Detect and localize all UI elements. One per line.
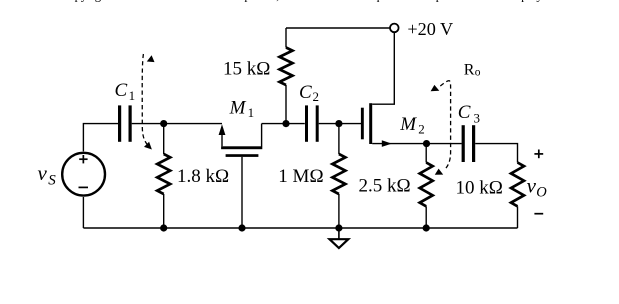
+20 V supply terminal (open circle) <box>390 24 399 33</box>
transistor M2 source wire with arrow <box>372 143 426 145</box>
svg-text:1.8 kΩ: 1.8 kΩ <box>177 166 229 187</box>
svg-text:O: O <box>536 185 547 201</box>
capacitor C3 <box>462 125 465 162</box>
svg-text:2: 2 <box>313 89 320 104</box>
wire C3 to load <box>475 144 517 163</box>
svg-text:S: S <box>48 172 56 188</box>
svg-text:o: o <box>475 67 481 79</box>
ground symbol <box>338 228 340 239</box>
svg-text:M: M <box>229 98 247 119</box>
svg-text:C: C <box>458 102 471 123</box>
node C junction dot (C2 / 1M / M2 gate) <box>335 120 342 127</box>
resistor 1 MOhm <box>338 124 340 154</box>
svg-text:M: M <box>399 114 417 135</box>
node A junction dot <box>160 120 167 127</box>
transistor M1 drain wire up to node <box>261 124 263 147</box>
svg-text:+20 V: +20 V <box>407 19 453 39</box>
wire C1 to M1 source <box>132 123 222 125</box>
svg-text:2: 2 <box>418 121 425 136</box>
resistor 1.8 kOhm <box>163 124 165 154</box>
resistor 10 kOhm <box>511 163 524 207</box>
svg-text:15 kΩ: 15 kΩ <box>223 59 270 80</box>
wire C2 to M2 gate <box>319 123 361 125</box>
svg-text:2.5 kΩ: 2.5 kΩ <box>359 175 411 196</box>
wire top rail from 15k to +20V terminal <box>286 27 390 29</box>
transistor M1 source arrow <box>221 133 223 146</box>
wire vS top to C1 <box>83 124 118 152</box>
wire bottom ground rail <box>83 227 517 229</box>
transistor M1 gate wire to ground rail <box>241 157 243 228</box>
svg-text:1 MΩ: 1 MΩ <box>278 166 323 187</box>
node B junction dot (15k / drain / C2) <box>282 120 289 127</box>
svg-text:C: C <box>299 82 312 103</box>
dashed output-resistance arrow near Ro <box>440 81 450 170</box>
svg-text:v: v <box>527 174 537 198</box>
wire from +20V terminal down to M2 drain <box>372 32 394 104</box>
junction dot M1 gate bottom <box>238 224 245 231</box>
svg-text:1: 1 <box>248 105 255 120</box>
transistor M1 channel bar <box>221 146 262 149</box>
wire M2 source node to C3 <box>427 143 462 145</box>
wire vS bottom to ground rail <box>82 197 84 228</box>
svg-text:Copyright © The McGraw-Hill Co: Copyright © The McGraw-Hill Companies, I… <box>60 0 545 3</box>
junction dot 1.8k bottom <box>160 224 167 231</box>
resistor 2.5 kOhm <box>425 144 427 163</box>
svg-text:R: R <box>464 62 475 79</box>
capacitor C2 <box>305 105 308 141</box>
svg-text:3: 3 <box>474 111 481 126</box>
capacitor C1 <box>118 105 121 141</box>
svg-text:1: 1 <box>129 88 136 103</box>
wire M1 drain to C2 <box>262 123 305 125</box>
resistor 15 kOhm <box>285 28 287 48</box>
transistor M2 gate bar <box>361 108 364 140</box>
svg-text:10 kΩ: 10 kΩ <box>456 177 503 198</box>
dashed input-resistance arrow near C1 <box>142 54 148 146</box>
source vS (circle with + -) <box>62 153 105 196</box>
node D junction dot (M2 source / 2.5k / C3) <box>423 140 430 147</box>
junction dot 1M bottom / ground <box>335 224 342 231</box>
transistor M1 gate bar <box>226 154 259 157</box>
svg-text:v: v <box>38 161 48 185</box>
junction dot 2.5k bottom <box>423 224 430 231</box>
svg-text:C: C <box>115 80 128 101</box>
transistor M2 channel bar <box>369 103 372 144</box>
label + for vO <box>534 153 543 155</box>
label - for vO <box>534 213 543 215</box>
